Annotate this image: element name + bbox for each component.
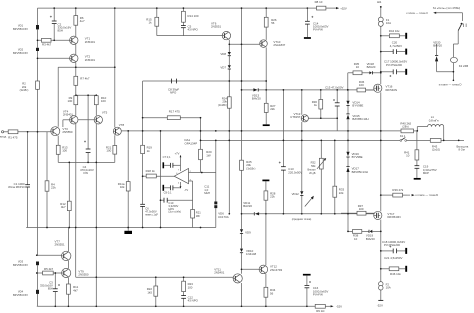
svg-text:43 NPO: 43 NPO xyxy=(188,299,199,303)
wire opamp input row xyxy=(189,172,216,174)
zener VD4 xyxy=(13,290,39,298)
fuse F1 xyxy=(378,17,391,26)
wire left bias chain vertical xyxy=(37,8,39,306)
ground C19 xyxy=(414,178,421,180)
resistor R25 xyxy=(240,160,256,170)
wire VT7 base xyxy=(37,254,62,256)
diode VD19 xyxy=(366,230,375,241)
wire C4 tail branch xyxy=(87,95,89,162)
wire opamp +7V xyxy=(180,155,182,171)
svg-text:нижн.с.1цР: нижн.с.1цР xyxy=(145,214,158,217)
svg-text:10k: 10k xyxy=(120,185,125,189)
resistor R7 xyxy=(74,76,90,85)
svg-text:VD12: VD12 xyxy=(292,192,300,196)
wire R39 tap xyxy=(381,194,407,196)
svg-text:PVi-FW: PVi-FW xyxy=(313,293,323,297)
transistor VT12 xyxy=(259,265,282,274)
wire R11a column xyxy=(127,131,129,231)
wire servo input column xyxy=(160,131,162,228)
svg-text:(2шт с/обк): (2шт с/обк) xyxy=(168,211,181,214)
wire VT13 base xyxy=(308,117,337,119)
svg-text:BAV20: BAV20 xyxy=(243,204,252,208)
wire R20 column xyxy=(200,118,202,173)
wire supply rows bottom xyxy=(381,251,405,269)
transistor VT5 xyxy=(94,110,107,124)
terminal C17 xyxy=(405,69,407,75)
diode VD20 xyxy=(433,40,442,61)
wire ground rail mid-left xyxy=(26,227,216,229)
node dots ground rail xyxy=(46,227,201,229)
resistor R38 xyxy=(353,230,362,241)
connector Ш1 terminal xyxy=(377,0,382,8)
svg-text:R1 475: R1 475 xyxy=(8,136,18,140)
wire +52V top rail xyxy=(38,7,308,9)
svg-text:8 Ом: 8 Ом xyxy=(459,148,465,152)
resistor R27 xyxy=(264,103,276,112)
svg-text:R32: R32 xyxy=(311,161,316,165)
resistor R2 xyxy=(20,81,40,92)
wire C15 column xyxy=(336,90,338,131)
svg-text:Wima MKP10: Wima MKP10 xyxy=(8,185,25,189)
wire relay feed xyxy=(436,12,463,14)
node dots mid rails xyxy=(127,130,459,215)
relay coil K2 xyxy=(450,57,468,68)
svg-text:2N5401: 2N5401 xyxy=(214,271,225,275)
svg-text:VD2: VD2 xyxy=(18,48,24,52)
wire R14 column xyxy=(182,8,184,35)
wire main output rail xyxy=(122,130,417,132)
svg-text:10А: 10А xyxy=(386,21,391,25)
node point D xyxy=(439,80,462,87)
svg-text:0,8 мГн: 0,8 мГн xyxy=(429,118,439,122)
resistor R1 xyxy=(8,130,18,140)
svg-text:BZV55C15V: BZV55C15V xyxy=(13,27,28,31)
wire VT10 base xyxy=(229,43,259,45)
capacitor C15 xyxy=(325,85,343,106)
svg-text:Внутри: Внутри xyxy=(307,169,316,172)
wire VT5 base link xyxy=(78,119,94,121)
resistor R35 xyxy=(353,62,362,75)
resistor R8 xyxy=(307,0,336,10)
svg-text:10: 10 xyxy=(356,65,360,69)
node dots mid-point rail xyxy=(241,213,349,215)
resistor R46 xyxy=(389,267,401,276)
wire input xyxy=(3,131,51,133)
svg-text:1k: 1k xyxy=(149,20,153,24)
wire VT3 emitter R13 xyxy=(57,136,59,163)
svg-text:BZV85C13H: BZV85C13H xyxy=(352,170,368,174)
svg-text:BAV20: BAV20 xyxy=(252,97,261,101)
capacitor C4 xyxy=(80,141,94,176)
wire R28 column xyxy=(265,181,267,214)
transistor VT10 xyxy=(260,40,286,48)
svg-text:BYV98E: BYV98E xyxy=(352,104,363,108)
wire VD6 column xyxy=(215,140,217,227)
resistor R37 xyxy=(357,204,366,215)
wire R30 column xyxy=(320,90,322,118)
capacitor C2 xyxy=(50,16,71,33)
resistor R43 xyxy=(430,139,441,152)
wire R23-C12 column xyxy=(183,277,185,306)
relay contact K2.1 xyxy=(400,134,407,141)
wire C9 row xyxy=(164,187,180,189)
svg-text:43 NPO: 43 NPO xyxy=(188,27,199,31)
svg-text:100: 100 xyxy=(67,99,72,103)
diode VD16 xyxy=(346,152,362,159)
ground R27 xyxy=(263,124,270,126)
node +52V xyxy=(336,6,347,10)
wire supply column x381 top xyxy=(380,8,382,85)
resistor R5 xyxy=(43,267,54,275)
svg-text:R18 1k: R18 1k xyxy=(146,169,156,173)
capacitor C20 xyxy=(390,41,402,54)
wire VT2 collector to VAS node xyxy=(58,63,115,68)
svg-text:вход: вход xyxy=(0,135,6,139)
node dots vt13 base xyxy=(320,117,338,119)
capacitor C10 xyxy=(164,198,181,214)
svg-text:BAV20: BAV20 xyxy=(433,44,442,48)
svg-text:22k: 22k xyxy=(51,185,56,189)
wire R35 gate-protect row xyxy=(348,73,381,90)
svg-text:1Вт: 1Вт xyxy=(196,214,201,218)
wire VT13 column xyxy=(301,90,303,214)
svg-text:BZV55C15V: BZV55C15V xyxy=(13,51,28,55)
transistor VT9 xyxy=(62,268,89,277)
node dots gate rail xyxy=(228,43,348,90)
wire VT9-R11 column xyxy=(67,278,69,307)
wire VAS to mid-point xyxy=(228,131,230,214)
svg-text:VD9: VD9 xyxy=(245,230,251,234)
svg-text:R7 4k7: R7 4k7 xyxy=(80,77,90,81)
wire output device column xyxy=(380,92,382,300)
svg-text:(3х1Вт): (3х1Вт) xyxy=(218,103,227,107)
svg-text:BZV55C15V: BZV55C15V xyxy=(13,293,28,297)
transistor VT3 xyxy=(51,127,73,136)
wire VD14-17 column xyxy=(347,90,349,232)
terminal -52V F2 xyxy=(377,300,384,307)
opamp DA1 xyxy=(174,138,197,192)
svg-text:56k: 56k xyxy=(311,164,316,168)
wire C3 column xyxy=(54,273,56,306)
trimmer R32 xyxy=(307,158,326,175)
wire VT6-VD8-VD7-R24 column xyxy=(228,40,230,131)
node arrow to point C xyxy=(433,12,436,14)
resistor R21b xyxy=(191,210,202,219)
svg-text:к плате — точка Б: к плате — точка Б xyxy=(416,193,439,197)
svg-text:85Н: 85Н xyxy=(48,287,53,291)
wire VT1 base node xyxy=(38,39,70,41)
wire VT12 base xyxy=(242,268,260,270)
resistor R12 xyxy=(60,201,71,210)
transistor VT13 xyxy=(291,112,309,122)
svg-text:10: 10 xyxy=(406,154,410,158)
svg-text:85Н: 85Н xyxy=(58,28,63,32)
svg-text:220,0x50V: 220,0x50V xyxy=(288,170,302,174)
mosfet VT16 xyxy=(374,84,397,92)
wire VT2 base xyxy=(38,57,70,59)
node dots right column xyxy=(142,35,455,270)
capacitor C3 xyxy=(40,281,60,292)
trimmer wiper arrow xyxy=(305,196,314,207)
svg-text:R44 10к: R44 10к xyxy=(389,29,400,33)
svg-text:R14 100: R14 100 xyxy=(188,14,199,18)
wire opamp -7V xyxy=(180,182,182,188)
wire R36 leads xyxy=(357,89,375,91)
resistor R36 xyxy=(357,80,366,92)
svg-text:R39 47k: R39 47k xyxy=(392,188,403,192)
resistor R34 xyxy=(264,287,276,297)
svg-text:VT5: VT5 xyxy=(102,110,108,114)
wire C13 column xyxy=(282,90,284,214)
svg-text:(3х1Вт): (3х1Вт) xyxy=(246,166,255,170)
diode VD10 xyxy=(240,249,257,257)
svg-text:1k5: 1k5 xyxy=(147,290,152,294)
capacitor C11 label xyxy=(204,185,210,195)
svg-text:-52V: -52V xyxy=(377,304,383,308)
diode VD12 xyxy=(292,191,304,196)
capacitor C13 xyxy=(279,162,302,175)
svg-text:PVi PSH200: PVi PSH200 xyxy=(386,63,402,67)
svg-text:100: 100 xyxy=(359,83,364,87)
resistor R41 xyxy=(404,150,419,160)
wire mid-point rail xyxy=(242,213,375,215)
transistor VT6 xyxy=(211,21,231,39)
resistor R3 xyxy=(42,38,52,46)
wire driver rail lower xyxy=(76,228,234,278)
fuse F2 xyxy=(379,282,391,290)
label C21 xyxy=(384,256,402,260)
svg-text:Ш1: Ш1 xyxy=(377,0,382,4)
svg-text:C21 4,5x250V: C21 4,5x250V xyxy=(384,256,402,260)
terminal C18 xyxy=(405,248,407,254)
capacitor C19 xyxy=(415,165,437,175)
wire bottom -52V rail xyxy=(37,305,331,307)
transistor VT4 xyxy=(63,109,78,124)
wire VT6 base xyxy=(157,8,223,35)
svg-text:S1 «Сеть» (тип 4ПЗН): S1 «Сеть» (тип 4ПЗН) xyxy=(433,6,461,10)
wire R7 column xyxy=(75,67,77,227)
capacitor C9 xyxy=(163,185,173,195)
node input terminal xyxy=(0,131,6,139)
svg-text:(средняя точка): (средняя точка) xyxy=(292,217,312,221)
resistor R39 xyxy=(392,188,438,197)
wire R19/R18 column xyxy=(142,118,144,228)
svg-text:4,7x250V: 4,7x250V xyxy=(390,44,402,48)
resistor R11 xyxy=(67,284,79,294)
wire opamp pin3 net xyxy=(161,181,193,228)
node dots bottom section xyxy=(36,254,308,307)
svg-text:VT8: VT8 xyxy=(119,123,125,127)
capacitor C5 xyxy=(181,24,199,31)
diode VD18 xyxy=(367,62,376,75)
svg-text:R9 1Ω: R9 1Ω xyxy=(316,309,325,313)
resistor R9b bottom rail xyxy=(315,304,325,313)
resistor R19 xyxy=(141,145,153,153)
svg-text:1W: 1W xyxy=(206,153,211,157)
svg-text:C15 47,0x50V: C15 47,0x50V xyxy=(325,85,343,89)
transistor VT8 xyxy=(113,123,124,135)
capacitor C18 xyxy=(382,240,405,253)
svg-text:BAV20: BAV20 xyxy=(366,237,375,241)
resistor R18 xyxy=(146,169,157,178)
svg-text:(3х1Вт): (3х1Вт) xyxy=(20,88,29,92)
resistor R33 xyxy=(333,186,345,197)
svg-text:2SA1837: 2SA1837 xyxy=(273,43,285,47)
terminal R46 xyxy=(405,266,407,272)
zener VD15 xyxy=(346,114,368,121)
svg-text:(2Вт): (2Вт) xyxy=(402,125,408,129)
svg-text:2N5401: 2N5401 xyxy=(63,112,74,116)
transistor VT7 xyxy=(55,239,71,260)
svg-text:-7V: -7V xyxy=(184,188,188,192)
wire gate rail pos xyxy=(242,89,375,91)
resistor R14 xyxy=(182,11,199,22)
wire emitter rail xyxy=(58,161,115,163)
wire R18 row xyxy=(143,175,175,177)
wire R10/VT5 column xyxy=(95,95,97,306)
svg-text:R17 475: R17 475 xyxy=(169,110,180,114)
diode VD11 xyxy=(243,201,259,215)
zener VD17 xyxy=(346,166,367,173)
wire C1 column xyxy=(27,132,29,228)
wire VT8-R21 stub xyxy=(114,135,116,162)
svg-text:R3 4k7: R3 4k7 xyxy=(42,43,52,47)
mosfet VT17 xyxy=(374,211,401,219)
resistor R11a xyxy=(118,182,130,191)
zener VD6 xyxy=(214,202,228,219)
label mid-point xyxy=(292,217,312,221)
capacitor C8 xyxy=(168,79,179,95)
svg-text:2N5401: 2N5401 xyxy=(85,40,96,44)
resistor R30 xyxy=(312,100,323,110)
resistor R6 xyxy=(74,16,85,26)
zener VD2 xyxy=(13,48,39,56)
transistor VT2 xyxy=(70,54,96,62)
capacitor C17 xyxy=(384,60,407,77)
svg-text:IRF540N: IRF540N xyxy=(386,88,398,92)
svg-text:100: 100 xyxy=(106,149,111,153)
resistor R4 xyxy=(45,181,56,191)
svg-text:K2 24B: K2 24B xyxy=(459,64,469,68)
wire R12 column xyxy=(68,162,70,227)
wire R26/VT10/R27 column xyxy=(265,8,267,124)
resistor R21 xyxy=(106,146,117,155)
capacitor C14 xyxy=(305,16,329,32)
wire R4 column xyxy=(46,132,48,228)
resistor R22 xyxy=(147,286,158,296)
wire L1 loop xyxy=(417,127,443,141)
capacitor C1 xyxy=(8,182,30,189)
svg-text:C9 0,1: C9 0,1 xyxy=(164,190,172,194)
wire emitter pair rail xyxy=(76,94,96,96)
ground C14 xyxy=(304,37,311,39)
svg-text:+7V: +7V xyxy=(175,152,180,156)
svg-text:КС170А: КС170А xyxy=(218,215,229,219)
svg-text:100: 100 xyxy=(62,149,67,153)
wire R6/VT1/VT2 column xyxy=(75,8,77,54)
wire VT7 collector xyxy=(67,228,69,252)
wire C2 branch xyxy=(53,8,55,40)
svg-text:R8 10: R8 10 xyxy=(315,0,323,4)
svg-text:10: 10 xyxy=(354,237,358,241)
svg-text:C7 0,1: C7 0,1 xyxy=(163,155,171,159)
svg-text:20 дБ: 20 дБ xyxy=(309,172,316,175)
svg-text:VD1: VD1 xyxy=(18,23,24,27)
transistor VT11 xyxy=(214,267,242,283)
svg-text:1k: 1k xyxy=(147,149,151,153)
svg-text:56: 56 xyxy=(271,21,275,25)
resistor R23 xyxy=(182,281,194,291)
resistor R9 xyxy=(67,96,77,105)
svg-text:+52V: +52V xyxy=(340,6,347,10)
svg-text:КТ815Г: КТ815Г xyxy=(291,115,301,119)
wire VT12 column xyxy=(265,214,267,306)
resistor R15 xyxy=(146,17,158,26)
svg-text:BZV55C15V: BZV55C15V xyxy=(13,263,28,267)
wire R22 column xyxy=(155,277,157,306)
resistor R13 xyxy=(56,145,68,154)
svg-text:VD8: VD8 xyxy=(220,52,226,56)
transistor VT1 xyxy=(70,36,96,44)
svg-text:100: 100 xyxy=(188,285,193,289)
wire supply rows top xyxy=(381,36,405,72)
svg-text:2N5551: 2N5551 xyxy=(55,243,66,247)
svg-text:22k: 22k xyxy=(270,107,275,111)
resistor R44 xyxy=(389,29,400,38)
svg-text:4k7: 4k7 xyxy=(73,288,78,292)
terminal C20 xyxy=(405,49,407,55)
svg-text:PVi-FW: PVi-FW xyxy=(313,28,323,32)
wire zobel column xyxy=(416,131,418,178)
svg-text:2N5401: 2N5401 xyxy=(85,58,96,62)
svg-text:МкП: МкП xyxy=(204,191,210,195)
wire feedback rail xyxy=(201,139,465,141)
node -52V rail xyxy=(331,304,343,308)
svg-text:FW: FW xyxy=(84,171,89,175)
resistor R40 xyxy=(400,121,413,132)
svg-text:OPA134P: OPA134P xyxy=(185,141,198,145)
ground bar servo xyxy=(124,231,132,234)
svg-text:4u7: 4u7 xyxy=(80,19,85,23)
resistor R26 xyxy=(264,17,277,27)
svg-text:22k: 22k xyxy=(339,191,344,195)
svg-text:(2x10): (2x10) xyxy=(432,148,440,152)
svg-text:IRF9540N: IRF9540N xyxy=(387,215,400,219)
svg-text:4k7: 4k7 xyxy=(61,205,66,209)
svg-text:VD7: VD7 xyxy=(220,65,226,69)
svg-text:-52V: -52V xyxy=(336,304,342,308)
inductor L1 xyxy=(428,115,444,126)
resistor R28 xyxy=(264,191,276,200)
wire VT3 collector xyxy=(57,67,59,127)
switch S1 xyxy=(406,6,466,31)
svg-text:R46 10к: R46 10к xyxy=(390,272,401,276)
wire VAS vertical x115 xyxy=(114,8,116,127)
svg-text:PVi PSH200: PVi PSH200 xyxy=(384,243,400,247)
svg-text:МКР: МКР xyxy=(423,171,429,175)
wire switch to relay xyxy=(453,31,458,58)
svg-text:2N5550: 2N5550 xyxy=(78,273,89,277)
node dots top rail xyxy=(53,7,308,9)
svg-text:NPO: NPO xyxy=(170,90,177,94)
label output xyxy=(457,144,469,151)
terminal R44 xyxy=(405,33,407,39)
capacitor C7 xyxy=(163,155,173,168)
capacitor C6 xyxy=(140,204,158,216)
svg-text:R5 4k7: R5 4k7 xyxy=(44,267,54,271)
wire R17 row xyxy=(143,117,201,119)
wire VT11 column xyxy=(241,273,243,275)
